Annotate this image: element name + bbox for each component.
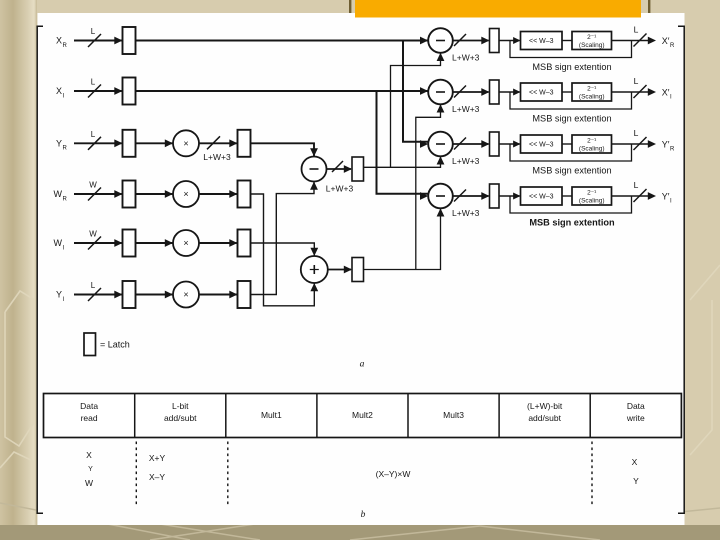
svg-text:add/subt: add/subt — [528, 413, 561, 423]
table header (L+W)-bit add/subt — [527, 401, 563, 423]
svg-text:L+W+3: L+W+3 — [452, 53, 480, 63]
wire S1 real part to subtractor A3 bottom — [364, 156, 445, 167]
svg-text:(L+W)-bit: (L+W)-bit — [527, 401, 563, 411]
bus width label L row 2 — [91, 78, 96, 87]
wire Y_R product to adder S1 top — [251, 143, 318, 156]
timing table header grid — [44, 394, 682, 438]
svg-text:read: read — [81, 413, 98, 423]
svg-text:b: b — [361, 510, 366, 520]
input label WI row 5 — [54, 238, 65, 251]
input label WR row 4 — [54, 189, 68, 202]
subtractor A4 (minus) — [428, 184, 453, 209]
svg-text:MSB sign extention: MSB sign extention — [532, 62, 611, 72]
MSB sign extension bypass wire row 1 — [510, 41, 649, 58]
svg-text:Y: Y — [88, 466, 93, 473]
dotted separator before Data write — [591, 442, 593, 506]
wire latch to multiplier row 6 — [136, 291, 174, 299]
svg-text:L-bit: L-bit — [172, 401, 189, 411]
table cell data write X Y — [632, 457, 640, 486]
input wire with bus slash row 4 — [74, 188, 123, 201]
svg-text:W: W — [54, 238, 63, 248]
bus width label L row 1 — [91, 27, 96, 36]
svg-text:×: × — [183, 238, 188, 248]
svg-text:X: X — [56, 86, 62, 96]
svg-text:R: R — [670, 147, 675, 153]
svg-text:X: X — [632, 457, 638, 467]
svg-text:MSB sign extention: MSB sign extention — [532, 114, 611, 124]
wire X_R latch to subtractor A1 — [136, 37, 429, 45]
table header Mult1 — [261, 410, 282, 420]
bus width label L row 3 — [91, 130, 96, 139]
svg-text:×: × — [183, 290, 188, 300]
dotted separator after add/subt — [227, 442, 229, 506]
wire adder S2 to latch — [328, 266, 352, 274]
svg-text:(Scaling): (Scaling) — [579, 94, 605, 101]
table header Data read — [80, 401, 98, 423]
svg-text:L+W+3: L+W+3 — [326, 184, 354, 194]
svg-text:(Scaling): (Scaling) — [579, 146, 605, 153]
output latch row 3 — [490, 132, 500, 156]
adder S2 (plus) — [301, 256, 328, 283]
table cell X+Y X-Y — [149, 453, 166, 482]
svg-text:<< W–3: << W–3 — [529, 194, 554, 201]
latch S1 result — [352, 157, 364, 181]
input wire with bus slash row 1 — [74, 34, 123, 47]
input label XR row 1 — [56, 36, 68, 49]
subtractor A1 (minus) — [428, 28, 453, 53]
svg-text:2⁻¹: 2⁻¹ — [587, 86, 597, 93]
svg-text:L: L — [91, 130, 96, 139]
multiplier M3 row 5 — [173, 230, 199, 256]
svg-text:= Latch: = Latch — [100, 340, 130, 350]
svg-text:2⁻¹: 2⁻¹ — [587, 138, 597, 145]
wire W_I product to adder S2 top — [251, 243, 319, 256]
svg-text:R: R — [670, 43, 675, 49]
latch row 5 input — [123, 230, 136, 257]
MSB sign extension bypass wire row 4 — [510, 196, 649, 213]
table cell (X-Y)xW — [376, 469, 411, 479]
wire latch to multiplier row 3 — [136, 139, 174, 147]
output latch row 2 — [490, 80, 500, 104]
svg-text:L: L — [634, 180, 639, 190]
svg-text:<< W–3: << W–3 — [529, 142, 554, 149]
shift block &lt;&lt; W-3 row 4 — [499, 187, 562, 205]
bus slash L+W+3 output row 3 — [452, 138, 490, 167]
svg-text:W: W — [85, 478, 93, 488]
wire Y_I product up to adder S1 bottom — [251, 182, 318, 295]
subtractor A2 (minus) — [428, 80, 453, 105]
latch row 3 input — [123, 130, 136, 157]
output label Y&#8242;R row 3 — [662, 140, 675, 153]
svg-text:Y′: Y′ — [662, 140, 670, 150]
svg-text:Y′: Y′ — [662, 192, 670, 202]
svg-text:L+W+3: L+W+3 — [452, 104, 480, 114]
svg-text:2⁻¹: 2⁻¹ — [587, 34, 597, 41]
scaling block 2^-1 row 1 — [562, 32, 612, 50]
latch row 5 after multiplier — [238, 230, 251, 257]
svg-text:(Scaling): (Scaling) — [579, 42, 605, 49]
wire multiplier to latch row 6 — [199, 291, 238, 299]
svg-text:Data: Data — [80, 401, 98, 411]
input wire with bus slash row 2 — [74, 85, 123, 98]
bus slash L+W+3 after adder S1 — [326, 161, 354, 194]
svg-text:Mult2: Mult2 — [352, 410, 373, 420]
bus slash L+W+3 output row 2 — [452, 86, 490, 115]
MSB sign extension bypass wire row 3 — [510, 144, 649, 161]
svg-text:W: W — [89, 181, 97, 190]
output label Y&#8242;I row 4 — [662, 192, 672, 205]
input label YR row 3 — [56, 139, 68, 152]
output bus slash L row 3 — [634, 128, 657, 150]
latch row 4 input — [123, 181, 136, 208]
svg-text:R: R — [63, 196, 68, 202]
svg-text:L+W+3: L+W+3 — [452, 156, 480, 166]
wire multiplier to latch row 4 — [199, 190, 238, 198]
input wire with bus slash row 6 — [74, 288, 123, 301]
bus width label L row 6 — [91, 281, 96, 290]
svg-text:(Scaling): (Scaling) — [579, 198, 605, 205]
svg-text:MSB sign extention: MSB sign extention — [532, 166, 611, 176]
MSB sign extention label row 3 — [532, 166, 611, 176]
MSB sign extention label row 1 — [532, 62, 611, 72]
table cell data read X Y W — [85, 450, 93, 488]
bus width label W row 5 — [89, 230, 97, 239]
scaling block 2^-1 row 2 — [562, 83, 612, 101]
svg-text:X: X — [56, 36, 62, 46]
svg-text:L: L — [91, 27, 96, 36]
input wire with bus slash row 3 — [74, 137, 123, 150]
output bus slash L row 4 — [634, 180, 657, 202]
svg-text:X′: X′ — [662, 36, 670, 46]
svg-text:a: a — [360, 360, 365, 370]
svg-text:X–Y: X–Y — [149, 472, 165, 482]
scaling block 2^-1 row 4 — [562, 187, 612, 205]
wire S2 imag part up to subtractor A2 bottom — [416, 104, 445, 269]
wire latch to multiplier row 4 — [136, 190, 174, 198]
svg-text:Y: Y — [56, 139, 62, 149]
latch row 4 after multiplier — [238, 181, 251, 208]
multiplier M1 row 3 — [173, 130, 199, 156]
svg-text:R: R — [63, 146, 68, 152]
svg-text:L+W+3: L+W+3 — [203, 152, 231, 162]
svg-text:<< W–3: << W–3 — [529, 38, 554, 45]
svg-text:write: write — [626, 413, 645, 423]
svg-text:L: L — [91, 281, 96, 290]
latch row 6 input — [123, 281, 136, 308]
wire S2 imag part to subtractor A4 bottom — [364, 208, 445, 269]
input label YI row 6 — [56, 290, 65, 303]
svg-text:×: × — [183, 189, 188, 199]
latch row 1 input — [123, 27, 136, 54]
wire X_I branch down to subtractor A4 — [377, 91, 429, 200]
latch row 2 input — [123, 78, 136, 105]
latch S2 result — [352, 258, 364, 282]
svg-text:(X–Y)×W: (X–Y)×W — [376, 469, 411, 479]
bus slash L+W+3 after multiplier M1 — [199, 136, 238, 162]
svg-text:L: L — [634, 25, 639, 35]
output latch row 4 — [490, 184, 500, 208]
MSB sign extention label row 4 — [529, 218, 615, 228]
svg-text:Mult3: Mult3 — [443, 410, 464, 420]
table header Mult3 — [443, 410, 464, 420]
shift block &lt;&lt; W-3 row 3 — [499, 135, 562, 153]
svg-text:Mult1: Mult1 — [261, 410, 282, 420]
wire X_R branch down to subtractor A3 — [403, 41, 428, 148]
wire latch to multiplier row 5 — [136, 239, 174, 247]
svg-text:Y: Y — [56, 290, 62, 300]
latch legend symbol — [84, 333, 96, 356]
wire W_R product down to adder S2 bottom — [251, 194, 319, 306]
svg-text:<< W–3: << W–3 — [529, 90, 554, 97]
subtractor A3 (minus) — [428, 132, 453, 157]
svg-text:X: X — [86, 450, 92, 460]
wire multiplier to latch row 5 — [199, 239, 238, 247]
output label X&#8242;R row 1 — [662, 36, 675, 49]
latch row 6 after multiplier — [238, 281, 251, 308]
multiplier M2 row 4 — [173, 181, 199, 207]
svg-text:L: L — [634, 76, 639, 86]
svg-text:W: W — [89, 230, 97, 239]
scaling block 2^-1 row 3 — [562, 135, 612, 153]
bus width label W row 4 — [89, 181, 97, 190]
multiplier M4 row 6 — [173, 282, 199, 308]
input wire with bus slash row 5 — [74, 237, 123, 250]
svg-text:Y: Y — [633, 476, 639, 486]
latch row 3 after multiplier — [238, 130, 251, 157]
svg-text:L+W+3: L+W+3 — [452, 208, 480, 218]
shift block &lt;&lt; W-3 row 2 — [499, 83, 562, 101]
output latch row 1 — [490, 29, 500, 53]
MSB sign extention label row 2 — [532, 114, 611, 124]
bus slash L+W+3 output row 4 — [452, 190, 490, 219]
MSB sign extension bypass wire row 2 — [510, 92, 649, 109]
input label XI row 2 — [56, 86, 65, 99]
shift block &lt;&lt; W-3 row 1 — [499, 32, 562, 50]
svg-text:L: L — [91, 78, 96, 87]
adder S1 (minus) — [302, 157, 327, 182]
latch legend text — [100, 340, 130, 350]
svg-text:W: W — [54, 189, 63, 199]
caption b — [361, 510, 366, 520]
table header L-bit add/subt — [164, 401, 197, 423]
svg-text:add/subt: add/subt — [164, 413, 197, 423]
svg-text:L: L — [634, 128, 639, 138]
table header Data write — [626, 401, 645, 423]
svg-text:X′: X′ — [662, 88, 670, 98]
svg-text:R: R — [63, 43, 68, 49]
svg-text:2⁻¹: 2⁻¹ — [587, 190, 597, 197]
dotted separator after Data read — [135, 442, 137, 506]
caption a — [360, 360, 365, 370]
output bus slash L row 2 — [634, 76, 657, 98]
wire X_I latch to subtractor A2 — [136, 87, 429, 95]
wire S1 real part up to subtractor A1 bottom — [391, 53, 445, 168]
table header Mult2 — [352, 410, 373, 420]
svg-text:MSB sign extention: MSB sign extention — [529, 218, 615, 228]
svg-text:×: × — [183, 138, 188, 148]
output label X&#8242;I row 2 — [662, 88, 672, 101]
svg-text:X+Y: X+Y — [149, 453, 166, 463]
svg-text:Data: Data — [627, 401, 645, 411]
output bus slash L row 1 — [634, 25, 657, 47]
bus slash L+W+3 output row 1 — [452, 34, 490, 63]
